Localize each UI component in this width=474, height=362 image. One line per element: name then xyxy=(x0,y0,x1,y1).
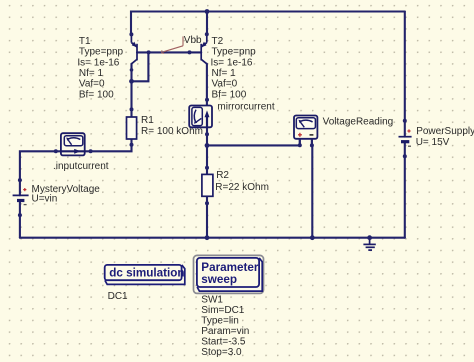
node R1 bottom xyxy=(130,143,134,147)
wire voltmeter branch xyxy=(207,139,300,146)
node MysteryVoltage top xyxy=(18,178,22,182)
node R2 bottom xyxy=(205,201,209,205)
dc simulation box DC1 xyxy=(105,265,185,302)
svg-text:Bf= 100: Bf= 100 xyxy=(212,89,247,100)
parameter sweep labels xyxy=(201,294,249,358)
svg-text:R1: R1 xyxy=(141,115,154,126)
svg-text:Type=pnp: Type=pnp xyxy=(79,47,124,58)
svg-text:DC1: DC1 xyxy=(108,291,128,302)
node T1 base pin xyxy=(147,50,151,54)
svg-text:sweep: sweep xyxy=(201,273,237,286)
wire top rail xyxy=(131,12,405,35)
svg-text:Bf= 100: Bf= 100 xyxy=(79,89,114,100)
svg-text:Sim=DC1: Sim=DC1 xyxy=(201,305,245,316)
parameter sweep box SW1 xyxy=(194,255,264,293)
current probe inputcurrent xyxy=(53,133,109,172)
svg-text:Is= 1e-16: Is= 1e-16 xyxy=(211,57,253,68)
svg-text:dc simulation: dc simulation xyxy=(109,266,184,279)
voltmeter VoltageReading xyxy=(294,116,393,146)
svg-text:Nf= 1: Nf= 1 xyxy=(212,68,237,79)
node mirrorprobe bottom xyxy=(205,132,209,136)
node rail-voltmeter xyxy=(310,235,315,240)
svg-text:VoltageReading: VoltageReading xyxy=(323,116,394,127)
transistor T2 labels xyxy=(211,36,257,101)
node probe right xyxy=(89,149,93,153)
wire voltmeter right pin to rail xyxy=(311,139,313,238)
node diode junction xyxy=(129,79,134,84)
svg-text:SW1: SW1 xyxy=(201,294,223,305)
svg-text:Nf= 1: Nf= 1 xyxy=(79,68,104,79)
svg-text:R=22 kOhm: R=22 kOhm xyxy=(215,182,269,193)
wire PowerSupply bottom xyxy=(404,142,406,238)
wire T1 collector to R1 xyxy=(130,64,132,117)
resistor R2 xyxy=(202,170,269,196)
svg-text:Type=pnp: Type=pnp xyxy=(212,47,257,58)
node R1 top xyxy=(130,107,134,111)
node R2 top xyxy=(205,166,209,170)
svg-text:Stop=3.0: Stop=3.0 xyxy=(201,347,242,358)
node Vbb label xyxy=(162,35,202,53)
svg-text:U=vin: U=vin xyxy=(32,194,58,205)
wire T2 emitter drop xyxy=(206,12,208,35)
node mirrorprobe top xyxy=(205,98,209,102)
node MysteryVoltage bottom xyxy=(18,213,22,217)
node T2 base pin xyxy=(188,50,192,54)
svg-text:Param=vin: Param=vin xyxy=(201,326,249,337)
wire diode connection T1 xyxy=(132,52,149,81)
transistor T1 labels xyxy=(77,36,123,101)
transistor T2 xyxy=(190,34,207,64)
svg-text:Type=lin: Type=lin xyxy=(201,315,239,326)
svg-text:T1: T1 xyxy=(79,36,91,47)
wire MysteryVoltage to bottom rail xyxy=(19,201,21,238)
wire PowerSupply top drop xyxy=(404,12,406,121)
svg-text:U= 15V: U= 15V xyxy=(416,137,450,148)
wire PowerSupply top pin xyxy=(404,121,406,137)
wire mirrorcurrent probe to R2 xyxy=(206,128,208,175)
svg-text:Vbb: Vbb xyxy=(184,35,202,46)
node rail-R2 xyxy=(205,235,210,240)
svg-text:R2: R2 xyxy=(216,170,229,181)
node voltmeter tap xyxy=(205,143,210,148)
transistor T1 xyxy=(131,34,137,70)
svg-text:.inputcurrent: .inputcurrent xyxy=(53,161,109,172)
node T1 emitter xyxy=(129,32,133,36)
node T2 emitter xyxy=(205,32,209,36)
ground xyxy=(363,238,375,250)
svg-text:Start=-3.5: Start=-3.5 xyxy=(201,336,246,347)
wire T2 collector to mirrorcurrent probe xyxy=(206,64,208,106)
voltage source PowerSupply xyxy=(399,126,474,148)
wire R1 bottom to probe xyxy=(85,139,132,151)
node PowerSupply top xyxy=(403,119,407,123)
node rail-T2 xyxy=(205,9,210,14)
voltage source MysteryVoltage xyxy=(13,184,101,205)
node voltmeter left pin xyxy=(298,143,302,147)
svg-text:mirrorcurrent: mirrorcurrent xyxy=(217,101,274,112)
wire probe to MysteryVoltage xyxy=(20,151,61,195)
node PowerSupply bottom xyxy=(403,154,407,158)
svg-text:Vaf=0: Vaf=0 xyxy=(79,79,105,90)
node probe left xyxy=(54,149,58,153)
wire bottom rail xyxy=(20,237,405,239)
node rail-ground xyxy=(367,235,372,240)
current probe mirrorcurrent xyxy=(189,101,275,127)
svg-text:Vaf=0: Vaf=0 xyxy=(212,79,238,90)
node T1 collector pin xyxy=(130,68,134,72)
wire base bus T1-T2 xyxy=(137,51,201,53)
svg-text:PowerSupply: PowerSupply xyxy=(416,126,474,137)
resistor R1 xyxy=(127,115,203,139)
wire R2 to bottom rail xyxy=(206,196,208,237)
node voltmeter right pin xyxy=(310,143,314,147)
svg-text:Is= 1e-16: Is= 1e-16 xyxy=(77,57,119,68)
svg-text:T2: T2 xyxy=(212,36,224,47)
